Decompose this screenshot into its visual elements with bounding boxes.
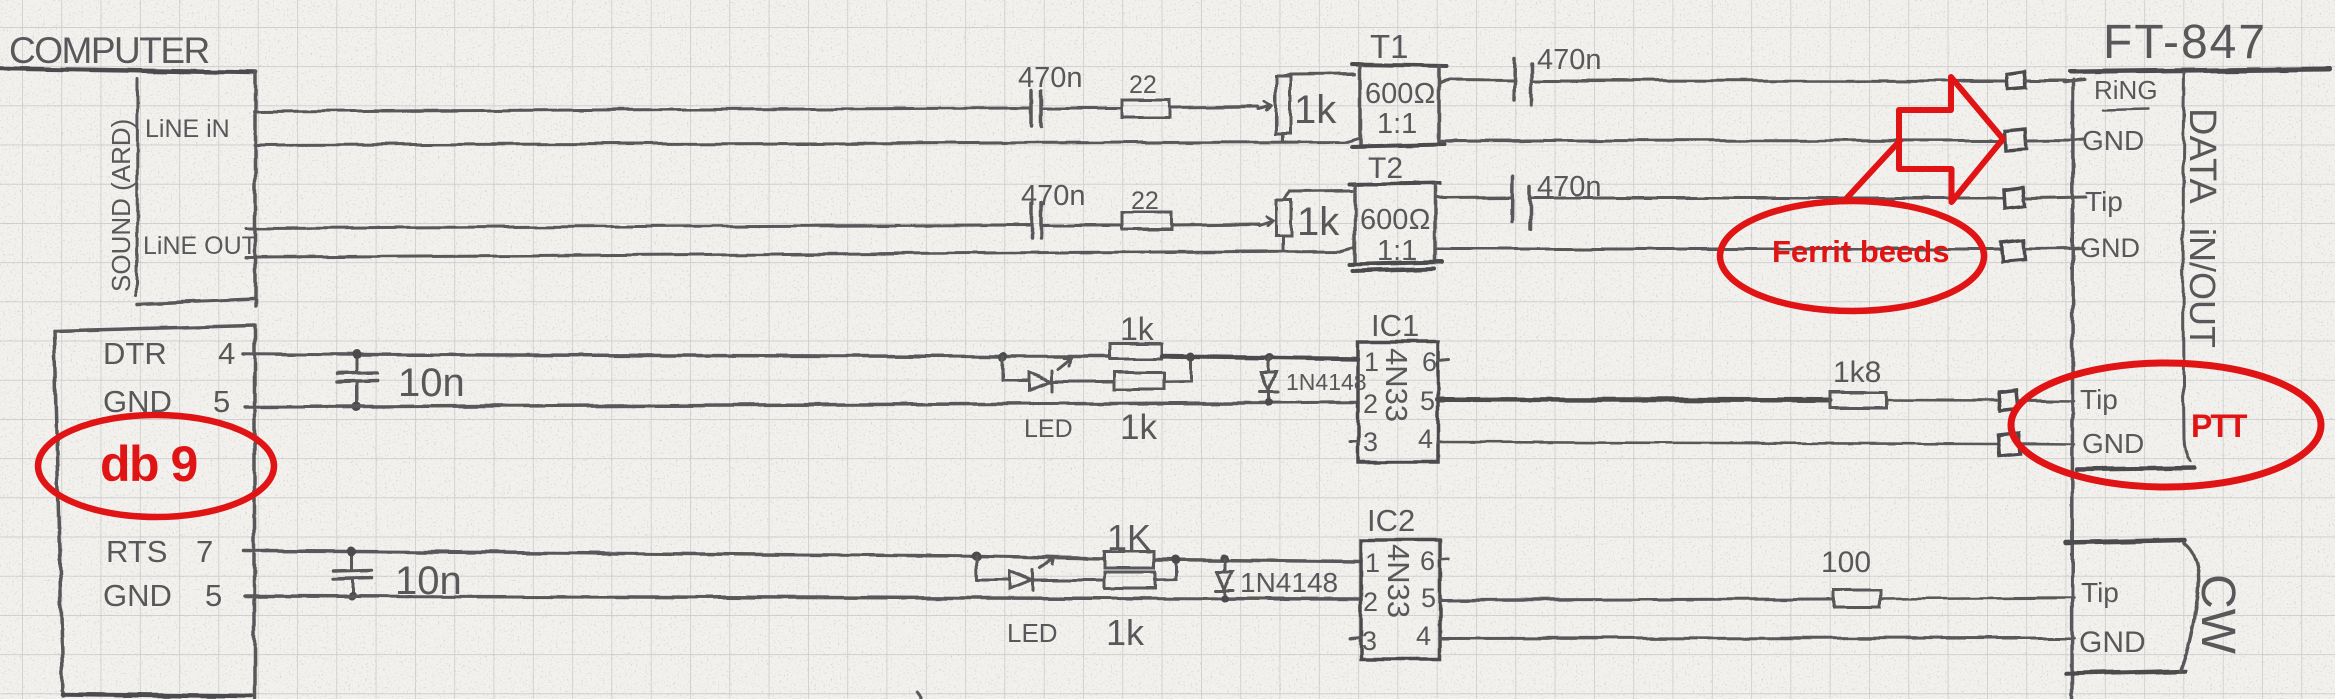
wire IC1 pin4 to FB6 — [1438, 442, 1998, 444]
ferrite bead FB6 — [1998, 434, 2020, 457]
resistor R4 1k body — [1114, 373, 1164, 390]
potentiometer P1 body — [1276, 77, 1290, 134]
red ellipse around db 9 — [38, 415, 274, 517]
page bottom stray mark — [917, 692, 921, 699]
potentiometer P2 body — [1276, 200, 1291, 236]
svg-text:DATA: DATA — [2181, 108, 2223, 204]
svg-text:1N4148: 1N4148 — [1286, 369, 1367, 395]
svg-text:470n: 470n — [1018, 62, 1083, 94]
DATA IN/OUT bracket line — [2183, 73, 2190, 461]
CW jack box bottom — [2066, 671, 2185, 674]
capacitor C2 470n plates — [1032, 203, 1042, 238]
junction dot C6 top — [348, 547, 357, 556]
potentiometer P1 wiper arrow — [1258, 102, 1272, 111]
wire T2 secondary top to C4 — [1435, 196, 1512, 198]
wire FB5 to PTT Tip — [2018, 399, 2074, 402]
svg-text:5: 5 — [205, 578, 222, 613]
wire C4 to ferrite bead FB3 — [1531, 197, 2003, 200]
resistor R7 1k body — [1104, 572, 1155, 588]
svg-text:DTR: DTR — [103, 336, 167, 371]
svg-text:LED: LED — [1024, 415, 1073, 443]
wire T2 secondary bottom — [1435, 248, 2001, 251]
svg-text:1k8: 1k8 — [1833, 356, 1881, 389]
junction dot LED1 branch right — [1187, 353, 1196, 362]
resistor R6 1k body (in RTS line) — [1104, 551, 1154, 568]
resistor R2 22 body — [1122, 212, 1172, 229]
IC2 box — [1361, 540, 1440, 659]
svg-text:GND: GND — [2079, 626, 2146, 659]
wire C3 to ferrite bead FB1 — [1532, 79, 2006, 83]
red leader line from ellipse to arrow — [1845, 141, 1900, 201]
svg-text:600Ω: 600Ω — [1365, 78, 1436, 110]
wire FB6 to PTT GND — [2020, 443, 2074, 446]
capacitor C5 10n stem top — [356, 355, 359, 372]
svg-text:1K: 1K — [1107, 517, 1151, 558]
LED2 diode symbol — [1010, 570, 1033, 590]
svg-text:3: 3 — [1362, 626, 1377, 656]
wire R4 to rejoin — [1164, 357, 1191, 382]
sound card box bottom edge — [138, 299, 254, 304]
junction dot diode D1 bottom — [1265, 399, 1273, 407]
IC1 pin3 tick — [1350, 440, 1358, 443]
wire R6 to IC2 pin1 — [1154, 560, 1361, 562]
svg-text:1k: 1k — [1294, 88, 1337, 132]
junction dot diode D2 bottom — [1220, 595, 1228, 603]
ferrite bead FB4 — [2001, 240, 2025, 263]
junction dot C5 bottom — [353, 402, 362, 411]
LED1 light arrow — [1058, 358, 1071, 369]
svg-text:10n: 10n — [398, 361, 465, 405]
IC2 pin6 tick — [1440, 558, 1449, 562]
svg-text:db 9: db 9 — [100, 436, 197, 492]
svg-text:GND: GND — [103, 384, 172, 419]
wire P1 top to T1 — [1283, 74, 1355, 77]
svg-text:RTS: RTS — [106, 534, 167, 569]
diode D1 1N4148 symbol — [1260, 373, 1278, 392]
diode D1 1N4148 stem — [1268, 358, 1271, 403]
junction dot diode D1 top — [1265, 353, 1274, 362]
svg-text:2: 2 — [1363, 389, 1378, 419]
ferrite bead FB1 — [2007, 72, 2026, 90]
svg-text:T2: T2 — [1368, 152, 1403, 185]
svg-text:5: 5 — [1420, 386, 1435, 416]
svg-text:22: 22 — [1129, 71, 1157, 99]
svg-text:1N4148: 1N4148 — [1240, 567, 1338, 598]
transformer T2 body — [1349, 183, 1440, 185]
red ellipse around Ferrit beeds — [1720, 201, 1984, 311]
wire to LED2 — [977, 578, 1011, 581]
svg-text:4: 4 — [218, 336, 235, 371]
junction dot C6 bottom — [348, 592, 356, 600]
computer box right edge — [253, 73, 257, 307]
wire FB1 to RING pin — [2026, 80, 2085, 81]
svg-text:SOUND (ARD): SOUND (ARD) — [106, 119, 136, 292]
svg-text:4: 4 — [1416, 621, 1431, 651]
wire C1 to R1 — [1041, 107, 1122, 110]
ferrite bead FB2 — [2005, 129, 2027, 151]
svg-text:1:1: 1:1 — [1377, 108, 1417, 140]
IC1 pin6 tick — [1438, 359, 1449, 360]
svg-text:10n: 10n — [395, 559, 462, 603]
capacitor C5 stem bottom — [356, 381, 359, 406]
diode D2 1N4148 symbol — [1215, 572, 1233, 590]
wire R2 to P2 wiper — [1172, 224, 1259, 225]
CW jack right bracket — [2180, 543, 2199, 671]
wire RTS pin 7 to R6 — [243, 551, 1104, 559]
wire T1 secondary bottom — [1440, 139, 2004, 143]
svg-text:4N33: 4N33 — [1379, 348, 1414, 422]
svg-text:1k: 1k — [1120, 408, 1157, 447]
svg-text:1k: 1k — [1120, 311, 1155, 347]
resistor R1 22 body — [1122, 100, 1170, 118]
wire C2 to R2 — [1041, 224, 1122, 227]
svg-text:T1: T1 — [1370, 28, 1409, 65]
PTT GND underline — [2077, 468, 2194, 470]
junction dot LED2 branch right — [1172, 556, 1181, 565]
svg-text:GND: GND — [2082, 428, 2144, 459]
wire LED2 branch drop — [975, 556, 979, 580]
wire DTR GND pin 5 — [245, 403, 1358, 408]
wire LINE OUT hot — [246, 225, 1031, 228]
svg-text:LiNE OUT: LiNE OUT — [143, 232, 257, 260]
FT-847 connector vertical rail — [2072, 80, 2073, 699]
wire LINE OUT return — [246, 247, 1355, 257]
FT-847 header underline — [2070, 69, 2331, 72]
CW jack box top — [2066, 540, 2185, 543]
wire R7 to rejoin — [1155, 560, 1176, 580]
svg-text:LiNE iN: LiNE iN — [145, 115, 230, 143]
svg-text:5: 5 — [1421, 583, 1436, 613]
svg-text:4N33: 4N33 — [1381, 544, 1416, 618]
svg-text:1k: 1k — [1106, 612, 1145, 653]
svg-text:6: 6 — [1420, 546, 1435, 576]
wire IC2 pin5 to R8 — [1440, 599, 1834, 600]
resistor R8 100 body — [1834, 590, 1880, 607]
diode D2 1N4148 stem — [1223, 559, 1226, 599]
wire IC1 pin5 to R5 — [1438, 397, 1830, 403]
wire P2 top to T2 — [1284, 191, 1353, 200]
svg-text:CW: CW — [2191, 574, 2244, 655]
junction dot C5 top — [353, 350, 362, 359]
wire DTR pin 4 to R3 — [243, 354, 1110, 357]
wire FB3 to Tip pin — [2025, 197, 2086, 198]
capacitor C1 470n plates — [1032, 91, 1042, 126]
resistor R5 1k8 body — [1830, 392, 1886, 408]
sound card box left edge — [136, 79, 140, 295]
svg-text:4: 4 — [1418, 424, 1433, 454]
svg-text:100: 100 — [1821, 546, 1871, 579]
svg-text:RiNG: RiNG — [2094, 75, 2158, 105]
wire R5 to FB5 — [1886, 399, 1998, 402]
capacitor C6 stem bottom — [351, 578, 354, 596]
svg-text:470n: 470n — [1537, 44, 1602, 76]
junction dot diode D2 top — [1220, 554, 1229, 563]
LED1 diode symbol — [1029, 371, 1052, 391]
svg-text:GND: GND — [2080, 233, 2140, 263]
ferrite bead FB5 — [1999, 391, 2018, 410]
svg-text:IC1: IC1 — [1371, 308, 1419, 343]
svg-text:470n: 470n — [1021, 180, 1086, 212]
wire P2 bottom leg — [1282, 236, 1285, 250]
wire FB4 to GND pin — [2024, 248, 2083, 249]
red ellipse around PTT — [2011, 363, 2321, 487]
wire R3 to IC1 pin1 — [1162, 357, 1358, 360]
connector rail top tick — [2063, 80, 2081, 83]
svg-text:Tip: Tip — [2080, 384, 2118, 415]
capacitor C3 470n plates — [1514, 58, 1532, 106]
resistor R3 1k body (in DTR line) — [1110, 344, 1162, 359]
node RING underline — [2103, 109, 2148, 110]
capacitor C5 10n plates — [338, 373, 377, 382]
DB9 connector box — [54, 326, 254, 332]
wire R1 to P1 wiper — [1170, 107, 1258, 108]
wire LED2 to R7 — [1033, 579, 1105, 582]
svg-text:5: 5 — [213, 384, 230, 419]
svg-text:LED: LED — [1007, 618, 1058, 648]
capacitor C6 10n stem top — [351, 552, 354, 569]
wire T1 secondary top to C3 — [1439, 80, 1515, 83]
junction dot LED2 branch left — [971, 551, 981, 561]
svg-text:3: 3 — [1363, 427, 1378, 457]
svg-text:Tip: Tip — [2081, 577, 2119, 608]
LED2 light arrow — [1040, 557, 1054, 568]
svg-text:iN/OUT: iN/OUT — [2182, 228, 2223, 348]
wire P1 bottom leg — [1282, 134, 1285, 142]
wire IC2 pin4 to CW GND — [1440, 637, 2074, 641]
capacitor C4 470n plates — [1512, 177, 1530, 229]
red arrow pointing to ferrite beads — [1899, 77, 2003, 202]
svg-text:6: 6 — [1422, 347, 1437, 377]
IC2 pin3 tick — [1351, 638, 1361, 639]
junction dot LED1 branch left — [999, 352, 1008, 361]
svg-text:7: 7 — [196, 534, 213, 569]
svg-text:1: 1 — [1365, 548, 1380, 578]
potentiometer P2 wiper arrow — [1259, 217, 1273, 226]
svg-text:1: 1 — [1364, 347, 1379, 377]
svg-text:22: 22 — [1131, 187, 1159, 215]
svg-text:1:1: 1:1 — [1377, 235, 1417, 267]
wire to LED1 — [1003, 380, 1029, 383]
wire LED1 branch drop — [1002, 357, 1005, 382]
computer box top edge — [0, 69, 255, 73]
svg-text:GND: GND — [103, 578, 172, 613]
svg-text:COMPUTER: COMPUTER — [9, 30, 209, 71]
svg-text:1k: 1k — [1297, 200, 1340, 244]
wire LINE IN hot — [254, 108, 1031, 112]
svg-text:FT-847: FT-847 — [2103, 16, 2267, 69]
svg-text:PTT: PTT — [2191, 408, 2248, 444]
svg-text:GND: GND — [2082, 125, 2144, 156]
capacitor C6 10n plates — [333, 570, 372, 579]
wire LINE IN return — [254, 138, 1360, 146]
svg-text:Tip: Tip — [2085, 186, 2123, 217]
svg-text:600Ω: 600Ω — [1360, 204, 1431, 236]
IC1 box — [1358, 342, 1438, 462]
svg-text:470n: 470n — [1537, 171, 1602, 203]
svg-text:Ferrit beeds: Ferrit beeds — [1772, 234, 1949, 269]
wire RTS GND pin 5 — [245, 596, 1361, 599]
transformer T1 body — [1352, 65, 1447, 67]
wire R8 to CW Tip — [1880, 598, 2074, 599]
ferrite bead FB3 — [2004, 187, 2025, 210]
svg-text:2: 2 — [1363, 587, 1378, 617]
svg-text:IC2: IC2 — [1367, 503, 1415, 538]
wire FB2 to GND pin — [2026, 140, 2083, 142]
wire LED1 to R4 — [1052, 380, 1114, 383]
